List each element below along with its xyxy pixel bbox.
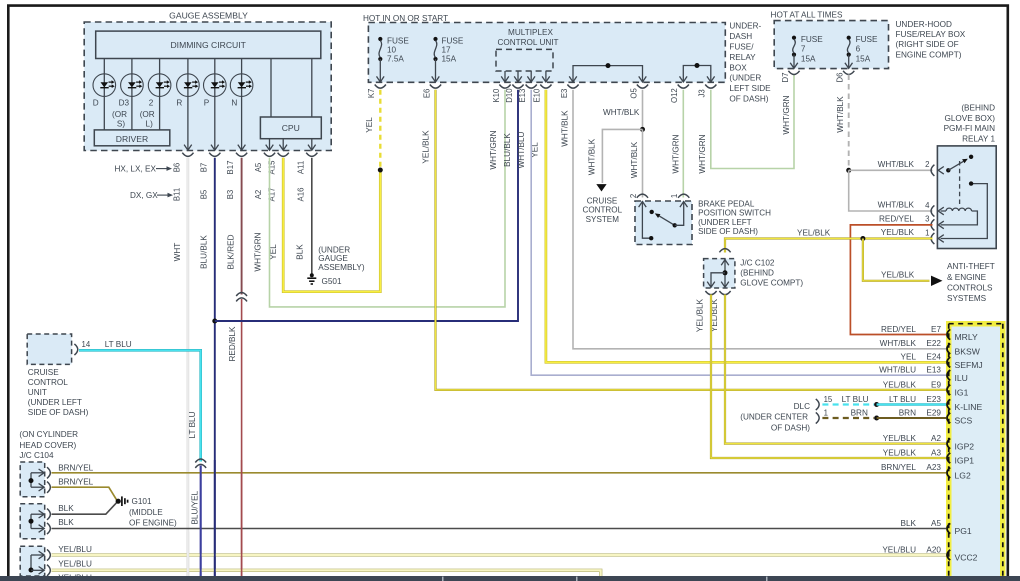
svg-text:OF ENGINE): OF ENGINE) [129,519,177,528]
bar separator 3 [766,577,768,581]
junction YEL K7 [378,168,383,173]
j/c c102 exit arrow right [721,282,729,288]
svg-text:B6: B6 [172,163,181,173]
j/c c104 upper internal row [31,486,44,488]
multiplex output wire [530,71,532,82]
wire LED R to connector [187,96,189,150]
svg-text:BRN/YEL: BRN/YEL [58,464,93,473]
svg-text:LT BLU: LT BLU [889,395,916,404]
j/c c104 upper internal vertical [30,473,32,487]
indicator LED P [204,74,227,97]
svg-text:2: 2 [149,98,154,107]
svg-text:(UNDER LEFT: (UNDER LEFT [28,398,82,407]
wire YEL/BLK E6 to IG1 [436,90,948,390]
j/c c104 middle internal row [31,513,44,515]
relay actuator dashed link [959,161,961,205]
svg-text:CONTROLS: CONTROLS [947,283,993,292]
svg-text:BLK: BLK [295,244,304,260]
svg-text:15A: 15A [801,54,816,63]
wire BLU/BLK B7 vertical [214,158,216,576]
svg-text:6: 6 [856,45,861,54]
under-dash pin E3 arrow [569,76,577,82]
brake switch pivot [673,223,677,227]
svg-text:10: 10 [387,45,397,54]
wire WHT/BLU E13 to ILU [531,90,947,376]
svg-text:WHT/BLK: WHT/BLK [880,339,917,348]
svg-text:LEFT SIDE: LEFT SIDE [729,84,771,93]
svg-text:FUSE: FUSE [442,36,464,45]
j/c c104 middle exit arrow [39,510,45,518]
relay blade [948,161,963,170]
wire BLU/BLK overlay [214,460,216,576]
svg-text:E9: E9 [931,380,941,389]
wire YEL K7 dashed segment [379,90,381,168]
under-dash pin E13 arrow [527,76,535,82]
svg-text:RELAY 1: RELAY 1 [962,134,995,143]
svg-text:HEAD COVER): HEAD COVER) [19,441,76,450]
relay pin 4 arrow [938,207,944,215]
cpu box [260,117,321,139]
svg-text:WHT/GRN: WHT/GRN [489,130,498,169]
svg-text:GLOVE COMPT): GLOVE COMPT) [740,279,803,288]
under-dash pin D10 arrow [514,76,522,82]
multiplex output wire [545,71,547,82]
j/c c102 entry arrow [721,260,729,266]
svg-text:LT BLU: LT BLU [105,340,132,349]
junction on E3-O5 link [606,63,611,68]
brake switch box fill [635,201,692,245]
wire dimming to LED N [241,59,243,97]
j/c c104 upper junction [29,478,34,483]
svg-text:BLU/BLK: BLU/BLK [200,235,209,269]
svg-text:B17: B17 [226,161,235,175]
svg-text:17: 17 [442,45,452,54]
svg-text:O5: O5 [629,88,638,99]
dlc pin 15 connector [816,399,819,410]
j/c c104 upper internal row [31,472,44,474]
svg-text:DRIVER: DRIVER [116,134,148,144]
cruise control unit dashed border [27,334,71,364]
ecm pin A2 connector [947,438,950,448]
svg-text:(BEHIND: (BEHIND [740,269,774,278]
svg-text:E6: E6 [422,89,431,99]
relay contact from pin2 [946,168,950,172]
inline connector LT BLU/BLU-YEL [195,459,206,463]
svg-text:DLC: DLC [794,402,810,411]
svg-text:RED/YEL: RED/YEL [881,325,916,334]
dlc pin 1 connector [816,412,819,423]
bar separator 1 [442,577,444,581]
fuse 7 symbol [792,36,796,40]
j/c c104 middle internal row [31,528,44,530]
j/c c102 exit arrow left [707,282,715,288]
svg-text:CRUISE: CRUISE [587,196,618,205]
svg-text:G501: G501 [322,277,342,286]
j/c c104 middle internal vertical [30,514,32,528]
svg-text:OF DASH): OF DASH) [729,95,768,104]
indicator LED 2 [148,74,171,97]
svg-text:15: 15 [824,395,833,404]
svg-text:E10: E10 [533,88,542,103]
svg-text:YEL/BLK: YEL/BLK [695,298,704,332]
svg-text:SYSTEM: SYSTEM [586,215,620,224]
svg-text:(RIGHT SIDE OF: (RIGHT SIDE OF [896,40,959,49]
svg-text:BRN: BRN [899,408,916,417]
svg-text:2: 2 [629,194,638,198]
gauge pin exit arrow [184,145,192,151]
gauge pin connector [306,153,317,157]
svg-text:E23: E23 [926,395,941,404]
j/c c104 middle junction [29,519,34,524]
gauge pin connector [278,153,289,157]
svg-text:YEL/BLK: YEL/BLK [421,130,430,164]
wire BLK to PG1 [52,528,948,530]
relay pin 2 connector [931,165,934,176]
svg-text:YEL/BLK: YEL/BLK [881,270,915,279]
wire LED D3 to driver [131,96,133,129]
junction K-LINE [874,402,879,407]
j/c c104 lower internal row [31,554,44,556]
j/c c104 middle box [20,504,45,539]
svg-text:YEL/BLU: YEL/BLU [58,545,92,554]
svg-text:SCS: SCS [955,416,973,426]
under-dash pin O5 connector [637,85,648,89]
wire BLK/RED B17 upper [241,158,243,295]
svg-text:S): S) [117,120,125,129]
svg-text:WHT/GRN: WHT/GRN [782,95,791,134]
svg-text:A5: A5 [931,519,941,528]
ecm pin A5 connector [947,523,950,533]
svg-text:A3: A3 [931,448,941,457]
svg-text:& ENGINE: & ENGINE [947,273,987,282]
svg-text:(BEHIND: (BEHIND [961,104,995,113]
j/c c104 upper exit arrow [39,483,45,491]
svg-text:YEL/BLK: YEL/BLK [797,229,831,238]
svg-text:E22: E22 [926,339,941,348]
j/c c104 middle connector [47,523,50,534]
svg-text:OF DASH): OF DASH) [771,424,810,433]
svg-text:CONTROL: CONTROL [28,378,68,387]
wire dimming to LED D [103,59,105,97]
svg-text:GAUGE ASSEMBLY: GAUGE ASSEMBLY [169,10,248,20]
svg-text:SYSTEMS: SYSTEMS [947,294,987,303]
svg-text:MULTIPLEX: MULTIPLEX [508,28,553,37]
svg-text:YEL/BLK: YEL/BLK [883,380,917,389]
svg-text:(UNDER: (UNDER [318,245,350,254]
wire RED/YEL pin3 to MRLY [850,225,947,335]
wire BLU/BLK branch to D10 [215,90,518,321]
svg-text:BLU/BLK: BLU/BLK [503,133,512,167]
svg-text:SEFMJ: SEFMJ [955,360,983,370]
svg-text:E29: E29 [926,408,941,417]
brake switch pin 1 connector [678,194,689,198]
under-dash pin K10 connector [499,85,510,89]
gauge assembly box fill [84,22,331,151]
svg-text:WHT/BLK: WHT/BLK [878,201,915,210]
svg-text:BRAKE PEDAL: BRAKE PEDAL [698,199,755,208]
wire dimming to CPU left [270,59,272,118]
under-hood pin D6 connector [843,71,854,75]
svg-text:BKSW: BKSW [955,347,981,357]
under-dash pin O12 arrow [680,76,688,82]
svg-text:E13: E13 [926,366,941,375]
under-dash pin K7 arrow [377,76,385,82]
svg-text:3: 3 [925,215,929,224]
svg-text:YEL: YEL [901,353,917,362]
svg-text:GAUGE: GAUGE [318,254,348,263]
under-dash fuse/relay box fill [368,23,725,83]
svg-text:IGP1: IGP1 [955,456,975,466]
under-dash pin E10 connector [540,85,551,89]
svg-text:LG2: LG2 [955,471,971,481]
under-dash pin J3 connector [705,85,716,89]
ecm pin A3 connector [947,453,950,463]
svg-text:CONTROL UNIT: CONTROL UNIT [497,38,558,47]
wire WHT overlay [187,532,190,577]
j/c c104 lower exit arrow [39,551,45,559]
svg-text:RED/YEL: RED/YEL [879,214,914,223]
svg-text:ASSEMBLY): ASSEMBLY) [318,263,365,272]
wire dimming to LED R [187,59,189,97]
svg-text:O12: O12 [670,88,679,103]
svg-text:BRN/YEL: BRN/YEL [58,478,93,487]
wire LED 2 to driver [159,96,161,129]
junction YEL/BLK antitheft [860,236,865,241]
j/c c104 middle connector [47,509,50,520]
under-dash pin E3 connector [567,85,578,89]
wire BLK to ground [52,502,117,514]
wire RED/BLK overlay [241,460,243,576]
svg-text:BLU/YEL: BLU/YEL [191,490,200,524]
svg-text:WHT/GRN: WHT/GRN [254,232,263,271]
wire LED P to connector [214,96,216,150]
svg-text:WHT/GRN: WHT/GRN [698,134,707,173]
svg-text:PG1: PG1 [955,526,972,536]
relay pin 4 connector [931,205,934,216]
svg-text:WHT/BLU: WHT/BLU [879,366,916,375]
wire CPU output A11 [311,139,313,151]
svg-text:IG1: IG1 [955,388,969,398]
svg-text:N: N [231,98,237,107]
indicator LED D3 [121,74,144,97]
under-hood pin D6 arrow [845,63,853,69]
svg-text:WHT/BLU: WHT/BLU [517,131,526,168]
svg-text:P: P [204,98,210,107]
ecm pin E9 connector [947,385,950,395]
wire WHT/BLK to relay pin2 [849,169,933,171]
relay coil return to pin3 [941,211,978,225]
wire LT BLU from cruise unit [79,350,201,461]
gauge pin exit arrow [279,145,287,151]
svg-text:WHT/BLK: WHT/BLK [630,141,639,178]
under-dash pin E6 connector [430,85,441,89]
svg-text:ILU: ILU [955,373,968,383]
indicator LED N [230,74,253,97]
multiplex output wire [504,71,506,82]
j/c c104 upper exit arrow [39,469,45,477]
svg-text:LT BLU: LT BLU [188,411,197,438]
svg-text:B5: B5 [199,189,208,199]
svg-text:1: 1 [670,194,679,198]
fuse 10 symbol [378,37,382,41]
wire LT BLU to K-LINE [877,403,948,406]
bar separator 2 [576,577,578,581]
under-hood fuse/relay box dashed border [774,21,888,69]
svg-text:R: R [176,98,182,107]
under-dash pin E10 arrow [542,76,550,82]
svg-text:D6: D6 [836,73,845,83]
brake switch pin 1 arrow [680,202,688,208]
under-dash pin D10 connector [512,85,523,89]
svg-text:FUSE: FUSE [387,36,409,45]
svg-text:B11: B11 [172,188,181,201]
j/c c104 upper connector [47,467,50,478]
under-hood pin D7 arrow [790,63,798,69]
j/c c104 lower exit arrow [39,567,45,575]
svg-text:UNDER-HOOD: UNDER-HOOD [896,20,952,29]
svg-text:FUSE/RELAY BOX: FUSE/RELAY BOX [896,30,966,39]
ground G501 [310,273,314,277]
under-dash pin E6 arrow [432,76,440,82]
wire WHT/BLK D6 dashed [848,75,850,169]
relay pin 3 arrow [938,221,944,229]
arrow to cruise control system [596,184,606,191]
j/c c102 internal vertical [724,259,726,287]
j/c c104 lower connector [47,549,50,560]
svg-text:(ON CYLINDER: (ON CYLINDER [19,430,78,439]
svg-text:CONTROL: CONTROL [583,206,623,215]
bottom toolbar bar [0,576,1020,581]
wire WHT/GRN A2 to multiplex K10 [270,90,506,307]
ecm pin E22 connector [947,344,950,354]
svg-text:IGP2: IGP2 [955,441,975,451]
svg-text:K10: K10 [492,88,501,103]
wire WHT/GRN O12 to brake switch [682,90,684,198]
svg-text:E7: E7 [931,325,941,334]
wire BLU/YEL lower [200,466,202,577]
driver box [94,130,170,146]
ecm pin E13 connector [947,370,950,380]
relay blade target [969,155,973,159]
svg-text:HOT AT ALL TIMES: HOT AT ALL TIMES [771,11,843,20]
j/c c104 lower junction [29,568,34,573]
svg-text:G101: G101 [132,497,152,506]
arrow to anti-theft [931,276,943,286]
gauge pin connector [264,153,275,157]
svg-text:RED/BLK: RED/BLK [228,326,237,362]
svg-text:1: 1 [925,228,929,237]
wire WHT/BLK E3 to BKSW [573,90,948,349]
wire WHT/BLK branch to cruise sys [602,129,642,183]
under-hood pin D7 connector [788,71,799,75]
j/c c104 upper box [20,462,45,497]
relay coil [941,208,972,211]
svg-text:FUSE: FUSE [801,35,823,44]
j/c c102 internal branch [711,273,725,287]
gauge assembly dashed border [84,22,331,151]
svg-text:(MIDDLE: (MIDDLE [129,508,163,517]
j/c c102 junction [723,270,728,275]
fuse 17 symbol [433,37,437,41]
relay pin1 internal path [941,184,988,239]
svg-text:PGM-FI MAIN: PGM-FI MAIN [944,124,995,133]
svg-text:POSITION SWITCH: POSITION SWITCH [698,209,771,218]
svg-text:K-LINE: K-LINE [955,402,983,412]
svg-text:BLK/RED: BLK/RED [227,234,236,269]
svg-text:A11: A11 [296,161,305,174]
brake switch dashed border [635,201,692,245]
wire dimming to LED P [214,59,216,97]
svg-text:DX, GX: DX, GX [130,191,158,200]
svg-text:MRLY: MRLY [955,332,979,342]
gauge pin exit arrow [211,145,219,151]
relay pin 1 connector [931,233,934,244]
j/c c104 lower box [20,546,45,576]
j/c c102 box fill [704,259,735,288]
wire WHT/GRN J3 to D7 [711,75,794,169]
j/c c104 lower connector [47,565,50,576]
junction SCS [874,416,879,421]
svg-text:A2: A2 [931,434,941,443]
multiplex control unit box [496,49,553,71]
svg-text:A20: A20 [926,545,941,554]
svg-text:FUSE: FUSE [856,35,878,44]
svg-text:E24: E24 [926,353,941,362]
wire WHT/BLK O5 upper [642,90,644,130]
svg-text:(OR: (OR [112,110,127,119]
brake switch pin 2 arrow [639,202,647,208]
under-dash pin K10 arrow [501,76,509,82]
ecm pin E23 connector [947,399,950,409]
svg-text:D10: D10 [505,88,514,103]
j/c c102 right connector [719,291,730,295]
j/c c104 lower internal row [31,569,44,571]
ecm border dashes right [1002,324,1004,581]
svg-text:RELAY: RELAY [729,53,756,62]
under-dash internal link O12-J3 [683,66,711,82]
brake switch contact lower [649,236,653,240]
svg-text:B3: B3 [226,190,235,200]
wire WHT/BLK O5 to brake switch [642,129,644,197]
svg-text:WHT/GRN: WHT/GRN [671,134,680,173]
wire BRN/YEL to LG2 [52,472,948,474]
wire BLK A16 to ground [311,158,313,274]
svg-text:YEL: YEL [365,117,374,133]
wire YEL A15 to K7 [283,158,380,292]
svg-text:J/C C102: J/C C102 [740,259,775,268]
svg-text:DASH: DASH [729,32,752,41]
ecm box yellow border [946,321,1006,581]
under-dash pin E13 connector [526,85,537,89]
wire BRN dlc dashed [822,417,874,419]
svg-text:14: 14 [82,340,91,349]
svg-text:LT BLU: LT BLU [842,395,869,404]
svg-text:L): L) [146,120,154,129]
wire YEL/BLK to anti-theft [863,239,930,281]
under-dash pin K7 connector [375,85,386,89]
inline connector on B17 wire [236,293,247,297]
junction O5 branch [640,127,645,132]
svg-text:HX, LX, EX: HX, LX, EX [115,165,157,174]
svg-text:BRN/YEL: BRN/YEL [881,463,916,472]
svg-text:D3: D3 [119,98,130,107]
svg-text:4: 4 [925,201,930,210]
svg-text:BOX: BOX [729,63,747,72]
svg-text:B7: B7 [199,163,208,173]
svg-text:ENGINE COMPT): ENGINE COMPT) [896,50,962,59]
gauge pin connector [236,153,247,157]
svg-text:WHT/BLK: WHT/BLK [588,138,597,175]
